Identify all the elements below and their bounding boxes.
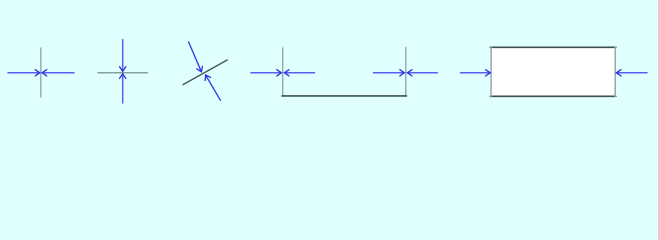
arrowhead outer-right (points left) (407, 70, 412, 76)
dimension line left (461, 72, 491, 74)
dimension line inner-left (284, 72, 314, 74)
figure 4: dimension between two extension lines over a channel shape (251, 48, 437, 97)
arrowhead right-pointing (35, 70, 40, 76)
figure 3: oblique arrows meeting a slanted edge (183, 42, 227, 100)
right extension line (vertical gray) (405, 48, 407, 97)
dimension line inner-right (374, 72, 405, 74)
oblique dimension line lower (206, 75, 221, 100)
dimension line right (616, 72, 647, 74)
arrowhead upper (points down-right) (197, 66, 203, 71)
arrowhead outer-left (points right) (277, 70, 282, 76)
figure 5: white rectangle with inward arrows on both sides (461, 47, 648, 97)
slanted object edge (dark) (183, 60, 227, 85)
left extension line (vertical gray) (282, 48, 284, 96)
extension line (horizontal gray) (98, 72, 148, 74)
arrowhead inner-left (points left) (284, 70, 289, 76)
rectangle body fill (491, 47, 616, 97)
rectangle right edge (614, 47, 616, 97)
arrowhead down-pointing (120, 67, 126, 72)
dimension line upper segment (122, 40, 124, 72)
dimension line lower segment (122, 74, 124, 103)
rectangle bottom edge (490, 95, 616, 97)
oblique dimension line upper (189, 42, 202, 72)
arrowhead right (points left) (616, 70, 621, 76)
arrowhead left (points right) (486, 70, 491, 76)
rectangle left edge (490, 47, 492, 97)
dimension line outer-right (407, 72, 437, 74)
arrowhead up-pointing (120, 74, 126, 79)
arrowhead lower (points up-left) (205, 75, 210, 81)
figure 2: vertical dimension arrows meeting at horizontal extension line (98, 40, 148, 103)
extension line (vertical gray) (40, 48, 42, 97)
dimension line left segment (8, 72, 40, 74)
object bottom edge (dark) (282, 95, 407, 97)
dimension line right segment (42, 72, 74, 74)
dimension line outer-left (251, 72, 281, 74)
arrowhead left-pointing (42, 70, 47, 76)
rectangle top edge (490, 46, 616, 48)
figure 1: horizontal dimension arrows meeting at vertical extension line (8, 48, 74, 97)
arrowhead inner-right (points right) (400, 70, 405, 76)
